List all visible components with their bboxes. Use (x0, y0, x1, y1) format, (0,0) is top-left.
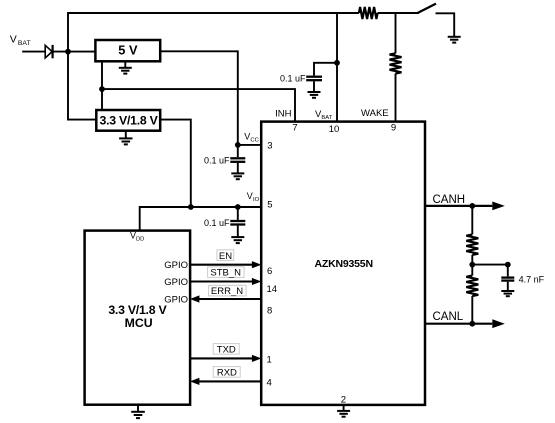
svg-text:V: V (10, 34, 17, 46)
svg-text:8: 8 (267, 305, 272, 316)
node junction VBAT decoupling (334, 60, 340, 66)
node VBAT label (10, 34, 31, 48)
svg-text:3: 3 (267, 141, 272, 152)
diode D1 (45, 45, 52, 58)
wire ERR_N (198, 298, 261, 300)
svg-text:MCU: MCU (125, 316, 153, 330)
label pin VBAT (315, 109, 333, 121)
wire junction down to 3.3V regulator (68, 52, 96, 120)
wire STB_N (190, 280, 253, 282)
wire VBAT pin drop (336, 13, 338, 122)
capacitor C4 4.7 nF (501, 278, 514, 281)
wire WAKE upper stub (395, 13, 397, 53)
node junction at diode output (65, 49, 71, 55)
ground (C1) (308, 92, 321, 98)
svg-text:DD: DD (136, 237, 144, 243)
label TXD (213, 344, 239, 356)
regulator 5V box (95, 40, 160, 61)
wire RXD (198, 380, 261, 382)
wire VBAT input (22, 51, 45, 53)
svg-text:3.3 V/1.8 V: 3.3 V/1.8 V (108, 303, 167, 317)
wire R1 to switch (378, 12, 419, 14)
node junction VCC (235, 142, 241, 148)
svg-text:V: V (247, 191, 253, 201)
svg-text:AZKN9355N: AZKN9355N (315, 258, 373, 270)
wire diode to 5V box (53, 51, 96, 53)
ground (IC pin 2) (343, 405, 345, 411)
svg-text:GPIO: GPIO (164, 295, 188, 306)
svg-text:5: 5 (267, 200, 272, 211)
wire enable link 5V to 3.3V (101, 61, 103, 110)
svg-text:EN: EN (219, 251, 232, 262)
capacitor C3 0.1 uF (VIO) (237, 207, 239, 220)
svg-text:4: 4 (267, 378, 272, 389)
label STB_N (208, 267, 245, 279)
svg-text:STB_N: STB_N (210, 268, 241, 279)
svg-text:GPIO: GPIO (164, 260, 188, 271)
wire TXD (190, 357, 253, 359)
label pin VCC (244, 131, 259, 143)
wire CANH to R3 (471, 206, 473, 235)
svg-text:WAKE: WAKE (361, 108, 389, 119)
svg-text:9: 9 (391, 123, 396, 134)
node junction VIO cap (235, 204, 241, 210)
wire CANH (425, 205, 492, 207)
ground (MCU) (137, 405, 139, 412)
svg-text:0.1 uF: 0.1 uF (280, 74, 306, 84)
wire VIO net (VDD stub to pin 5) (140, 207, 262, 231)
capacitor C1 0.1 uF (306, 77, 322, 81)
svg-text:CC: CC (250, 137, 258, 143)
wire VCC stub to pin 3 (238, 144, 261, 146)
switch S1 lever (418, 4, 437, 13)
resistor R4 (termination lower) (466, 276, 478, 297)
wire 3.3V output down to VIO net (160, 120, 191, 207)
svg-text:INH: INH (275, 108, 292, 119)
wire R4 to CANL (471, 296, 473, 324)
arrow CANL (492, 319, 505, 328)
svg-text:4.7 nF: 4.7 nF (519, 274, 545, 284)
ground (C2) (231, 173, 244, 179)
node junction VIO-VDD (188, 204, 194, 210)
svg-text:10: 10 (329, 124, 340, 135)
label VDD (130, 231, 144, 243)
wire R3 to R4 (471, 255, 473, 276)
node junction CANL term (469, 321, 475, 327)
wire EN (190, 264, 253, 266)
svg-text:V: V (244, 131, 250, 141)
arrow CANH (492, 202, 505, 211)
svg-text:BAT: BAT (18, 40, 31, 47)
svg-text:0.1 uF: 0.1 uF (204, 155, 230, 165)
resistor R1 (series, top rail) (359, 7, 378, 19)
svg-text:IO: IO (253, 197, 260, 203)
node junction C4 top (505, 262, 511, 268)
ground (switch) (448, 37, 461, 43)
svg-text:3.3 V/1.8 V: 3.3 V/1.8 V (100, 113, 159, 127)
MCU box (85, 231, 191, 405)
svg-text:5 V: 5 V (118, 42, 138, 57)
svg-text:6: 6 (267, 266, 272, 277)
label ERR_N (209, 285, 247, 297)
transceiver IC box U1 (261, 122, 425, 405)
wire CANL (425, 323, 492, 325)
ground (3.3V regulator) (125, 131, 127, 139)
wire to C4 (472, 265, 508, 277)
ground (5V regulator) (124, 61, 126, 67)
svg-text:7: 7 (292, 123, 297, 134)
resistor R3 (termination upper) (466, 234, 478, 255)
svg-text:RXD: RXD (217, 368, 237, 379)
svg-text:TXD: TXD (217, 345, 236, 356)
switch S1 fixed contact wire (436, 13, 455, 36)
node junction CANH term (469, 203, 475, 209)
wire top rail from junction up and right (68, 13, 359, 52)
ground (C4) (501, 291, 514, 296)
wire INH net to pin 7 (102, 89, 295, 122)
svg-text:14: 14 (267, 284, 278, 295)
label EN (217, 250, 234, 262)
svg-text:1: 1 (267, 355, 272, 366)
svg-text:2: 2 (341, 394, 346, 405)
ground (C3) (231, 237, 244, 243)
wire to C1 (314, 63, 337, 76)
wire 5V output to VCC (160, 51, 238, 145)
capacitor C2 0.1 uF (VCC) (237, 145, 239, 157)
svg-text:BAT: BAT (321, 115, 332, 121)
wire WAKE lower stub (395, 74, 397, 122)
svg-text:ERR_N: ERR_N (211, 286, 243, 297)
node junction INH (99, 86, 105, 92)
svg-text:GPIO: GPIO (164, 277, 188, 288)
resistor R2 (WAKE pull) (390, 53, 402, 73)
svg-text:0.1 uF: 0.1 uF (204, 218, 230, 228)
label pin VIO (247, 191, 260, 203)
regulator 3.3V box (96, 110, 160, 131)
node junction split termination (469, 262, 475, 268)
svg-text:CANH: CANH (433, 194, 466, 206)
label RXD (213, 367, 240, 379)
svg-text:CANL: CANL (433, 311, 464, 323)
